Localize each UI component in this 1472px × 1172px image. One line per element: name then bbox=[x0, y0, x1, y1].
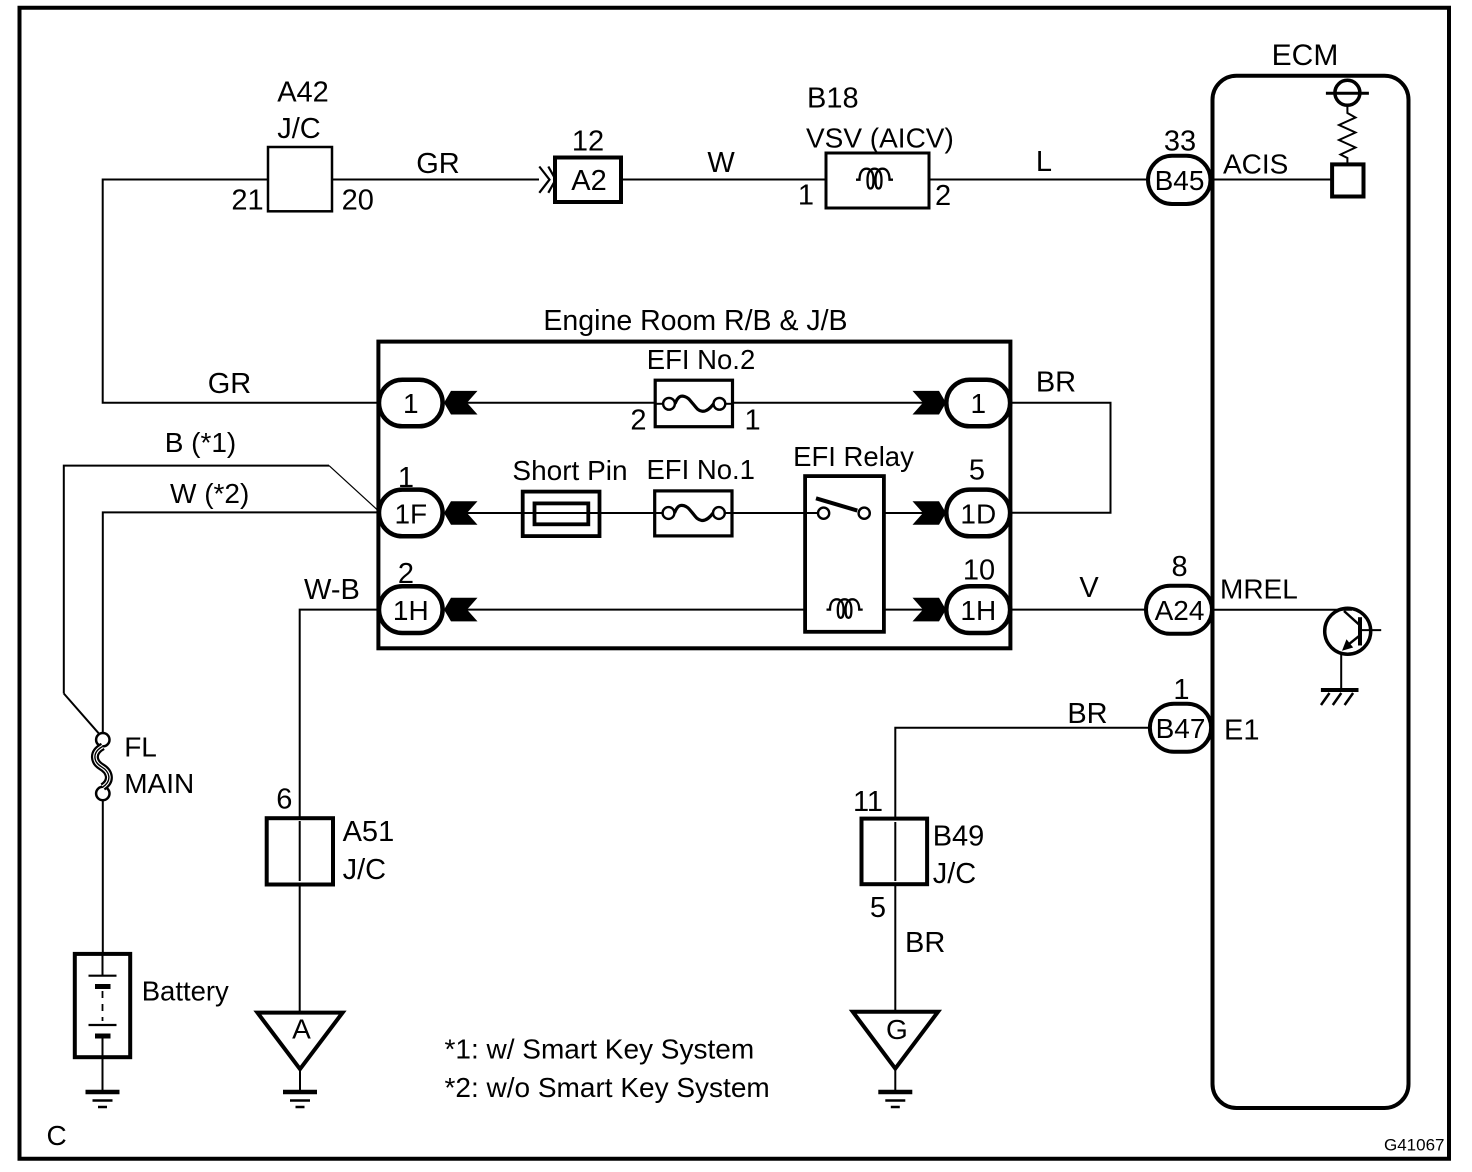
arrow into right 1 row1 bbox=[913, 391, 947, 415]
coil L1 inside VSV bbox=[856, 169, 893, 189]
short pin box bbox=[523, 492, 600, 536]
svg-text:1F: 1F bbox=[394, 498, 427, 529]
wire row1 inside box bbox=[442, 402, 655, 404]
junction block A42 J/C bbox=[268, 147, 332, 211]
right oval 1H row3 bbox=[946, 586, 1010, 633]
svg-text:L: L bbox=[1036, 146, 1052, 178]
wire stubs inside B18 bbox=[826, 179, 857, 181]
svg-text:EFI No.2: EFI No.2 bbox=[647, 344, 756, 375]
ground triangle A bbox=[257, 1013, 342, 1070]
svg-text:*1: w/ Smart Key System: *1: w/ Smart Key System bbox=[445, 1034, 755, 1065]
arrow into 1H row3 bbox=[444, 598, 478, 622]
junction block A51 J/C bbox=[267, 818, 333, 884]
wire A2 to VSV B18 bbox=[621, 179, 826, 181]
arrow into 1D row2 bbox=[913, 501, 947, 525]
fusible link FL MAIN bbox=[95, 733, 110, 800]
svg-text:FL: FL bbox=[124, 732, 157, 763]
left oval 1 row1 bbox=[379, 380, 443, 427]
arrow into 1 row1 bbox=[444, 391, 478, 415]
ground symbol under battery bbox=[86, 1092, 120, 1107]
svg-text:2: 2 bbox=[935, 180, 951, 212]
svg-text:33: 33 bbox=[1164, 126, 1196, 158]
svg-text:EFI Relay: EFI Relay bbox=[793, 441, 914, 472]
wire B45 to ACIS terminal square bbox=[1210, 179, 1332, 181]
wire battery to ground bbox=[102, 1057, 104, 1090]
svg-text:BR: BR bbox=[1067, 698, 1107, 730]
svg-text:B49: B49 bbox=[933, 821, 985, 853]
svg-text:B18: B18 bbox=[807, 83, 859, 115]
svg-text:Engine Room R/B & J/B: Engine Room R/B & J/B bbox=[543, 305, 847, 337]
connector B45 bbox=[1148, 156, 1211, 204]
wire W-B from 1H to A51 bbox=[300, 610, 379, 819]
resistor R1 inside ECM bbox=[1339, 105, 1356, 164]
svg-text:A51: A51 bbox=[343, 816, 395, 848]
svg-text:5: 5 bbox=[870, 892, 886, 924]
wire B49 to ground G bbox=[894, 884, 896, 1012]
svg-text:1: 1 bbox=[1173, 674, 1189, 706]
svg-text:2: 2 bbox=[630, 405, 646, 437]
wire A to ground bbox=[299, 1069, 301, 1090]
connector A2 bbox=[555, 158, 621, 203]
svg-text:21: 21 bbox=[231, 185, 263, 217]
fuse EFI No.1 bbox=[655, 491, 732, 536]
svg-text:12: 12 bbox=[572, 126, 604, 158]
svg-text:B45: B45 bbox=[1155, 165, 1205, 196]
wire A24 to transistor bbox=[1212, 609, 1352, 611]
svg-text:B47: B47 bbox=[1156, 713, 1206, 744]
wire B (*1) bbox=[64, 466, 329, 694]
relay contact left bbox=[818, 508, 829, 519]
svg-text:20: 20 bbox=[342, 185, 374, 217]
svg-text:G41067: G41067 bbox=[1384, 1136, 1445, 1155]
svg-text:GR: GR bbox=[416, 148, 460, 180]
wire row3 to A24 bbox=[1010, 609, 1146, 611]
connector B47 bbox=[1150, 704, 1211, 752]
wire diagonal B down to FL MAIN bbox=[64, 694, 100, 735]
relay switch lever bbox=[816, 498, 857, 510]
wire W (*2) bbox=[103, 512, 379, 733]
relay K1 EFI Relay bbox=[805, 476, 884, 632]
relay coil bbox=[827, 599, 863, 618]
connector arrows to A2 bbox=[539, 167, 549, 193]
ECM box U1 bbox=[1213, 76, 1409, 1108]
arrow into right 1H row3 bbox=[913, 598, 947, 622]
wire FL MAIN to battery bbox=[102, 800, 104, 954]
arrow into 1F row2 bbox=[444, 501, 478, 525]
Engine Room R/B & J/B box bbox=[378, 342, 1010, 649]
wire VSV B18 to B45 bbox=[929, 179, 1148, 181]
svg-text:Short Pin: Short Pin bbox=[512, 455, 627, 486]
svg-text:1: 1 bbox=[971, 388, 987, 419]
ACIS terminal square bbox=[1332, 164, 1363, 196]
wire row3 relay coil to chevron bbox=[862, 609, 947, 611]
connector A24 bbox=[1146, 586, 1212, 634]
chassis ground for transistor bbox=[1321, 690, 1359, 705]
svg-text:BR: BR bbox=[905, 927, 945, 959]
svg-text:B (*1): B (*1) bbox=[165, 427, 237, 458]
svg-text:A2: A2 bbox=[571, 165, 606, 197]
svg-text:6: 6 bbox=[276, 784, 292, 816]
ground symbol under A bbox=[283, 1092, 317, 1107]
battery BT1 bbox=[75, 954, 130, 1057]
svg-text:V: V bbox=[1079, 572, 1099, 604]
svg-text:Battery: Battery bbox=[142, 976, 229, 1007]
solenoid valve B18 VSV (AICV) bbox=[826, 153, 929, 208]
svg-text:C: C bbox=[47, 1120, 67, 1151]
svg-text:1: 1 bbox=[798, 180, 814, 212]
wire A51 to ground A bbox=[299, 885, 301, 1013]
relay internal wire row2 bbox=[805, 512, 818, 514]
ground triangle G bbox=[853, 1012, 938, 1069]
svg-text:A24: A24 bbox=[1155, 595, 1205, 626]
svg-text:11: 11 bbox=[853, 786, 883, 818]
svg-text:EFI No.1: EFI No.1 bbox=[646, 454, 755, 485]
wire row2 inside box bbox=[442, 512, 523, 514]
svg-text:BR: BR bbox=[1036, 367, 1076, 399]
svg-text:A42: A42 bbox=[277, 76, 329, 108]
wire BR from B47 to B49 bbox=[895, 728, 1150, 819]
svg-text:VSV (AICV): VSV (AICV) bbox=[806, 123, 954, 154]
line through terminal circle bbox=[1326, 92, 1369, 95]
svg-text:1H: 1H bbox=[960, 595, 996, 626]
right oval 1D row2 bbox=[946, 490, 1010, 537]
svg-text:GR: GR bbox=[208, 368, 252, 400]
svg-text:W: W bbox=[707, 147, 735, 179]
right oval 1 row1 bbox=[946, 380, 1010, 427]
svg-text:J/C: J/C bbox=[343, 854, 387, 886]
svg-text:A: A bbox=[292, 1014, 311, 1045]
svg-text:E1: E1 bbox=[1224, 715, 1259, 747]
svg-text:MREL: MREL bbox=[1220, 574, 1298, 605]
svg-text:8: 8 bbox=[1172, 551, 1188, 583]
svg-text:ACIS: ACIS bbox=[1223, 149, 1288, 180]
terminal circle symbol inside ECM bbox=[1335, 80, 1360, 105]
svg-text:1: 1 bbox=[403, 388, 419, 419]
svg-text:1D: 1D bbox=[960, 498, 996, 529]
wire GR from A42 left down to engine room row1 bbox=[103, 180, 379, 403]
svg-text:10: 10 bbox=[963, 554, 995, 586]
svg-text:1H: 1H bbox=[393, 595, 429, 626]
transistor Q1 bbox=[1325, 608, 1382, 688]
svg-text:W (*2): W (*2) bbox=[170, 478, 249, 509]
wire G to ground bbox=[894, 1069, 896, 1090]
svg-text:W-B: W-B bbox=[304, 574, 360, 606]
svg-text:*2: w/o Smart Key System: *2: w/o Smart Key System bbox=[445, 1072, 770, 1103]
svg-text:J/C: J/C bbox=[277, 113, 321, 145]
relay contact right bbox=[859, 508, 870, 519]
left oval 1H row3 bbox=[379, 586, 443, 633]
svg-text:5: 5 bbox=[969, 454, 985, 486]
svg-text:ECM: ECM bbox=[1272, 39, 1339, 72]
wire diagonal B to 1F bbox=[329, 466, 379, 511]
junction block B49 J/C bbox=[862, 819, 928, 885]
wire A42 to A2 connector bbox=[332, 179, 539, 181]
svg-text:G: G bbox=[886, 1014, 908, 1045]
svg-text:2: 2 bbox=[398, 558, 414, 590]
svg-text:1: 1 bbox=[398, 462, 414, 494]
wire row3 from 1H to relay coil bbox=[442, 609, 828, 611]
left oval 1F row2 bbox=[379, 490, 443, 537]
ground symbol under G bbox=[878, 1092, 912, 1107]
svg-text:MAIN: MAIN bbox=[124, 768, 194, 799]
svg-text:J/C: J/C bbox=[933, 858, 977, 890]
fuse EFI No.2 bbox=[655, 380, 732, 427]
svg-text:1: 1 bbox=[745, 405, 761, 437]
wire BR loop row1 to row2 bbox=[1010, 403, 1110, 513]
